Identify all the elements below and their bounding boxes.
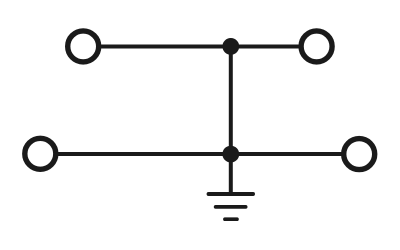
junction dot top: [222, 38, 239, 55]
ground: [209, 194, 253, 219]
terminal circle bottom-left: [25, 138, 56, 169]
terminal circle top-left: [68, 31, 99, 62]
wire vertical: [229, 47, 233, 195]
terminal circle top-right: [301, 31, 332, 62]
wire bottom horizontal: [40, 152, 359, 156]
wire top horizontal: [83, 45, 317, 49]
terminal circle bottom-right: [344, 139, 375, 170]
junction dot bottom: [222, 146, 239, 163]
